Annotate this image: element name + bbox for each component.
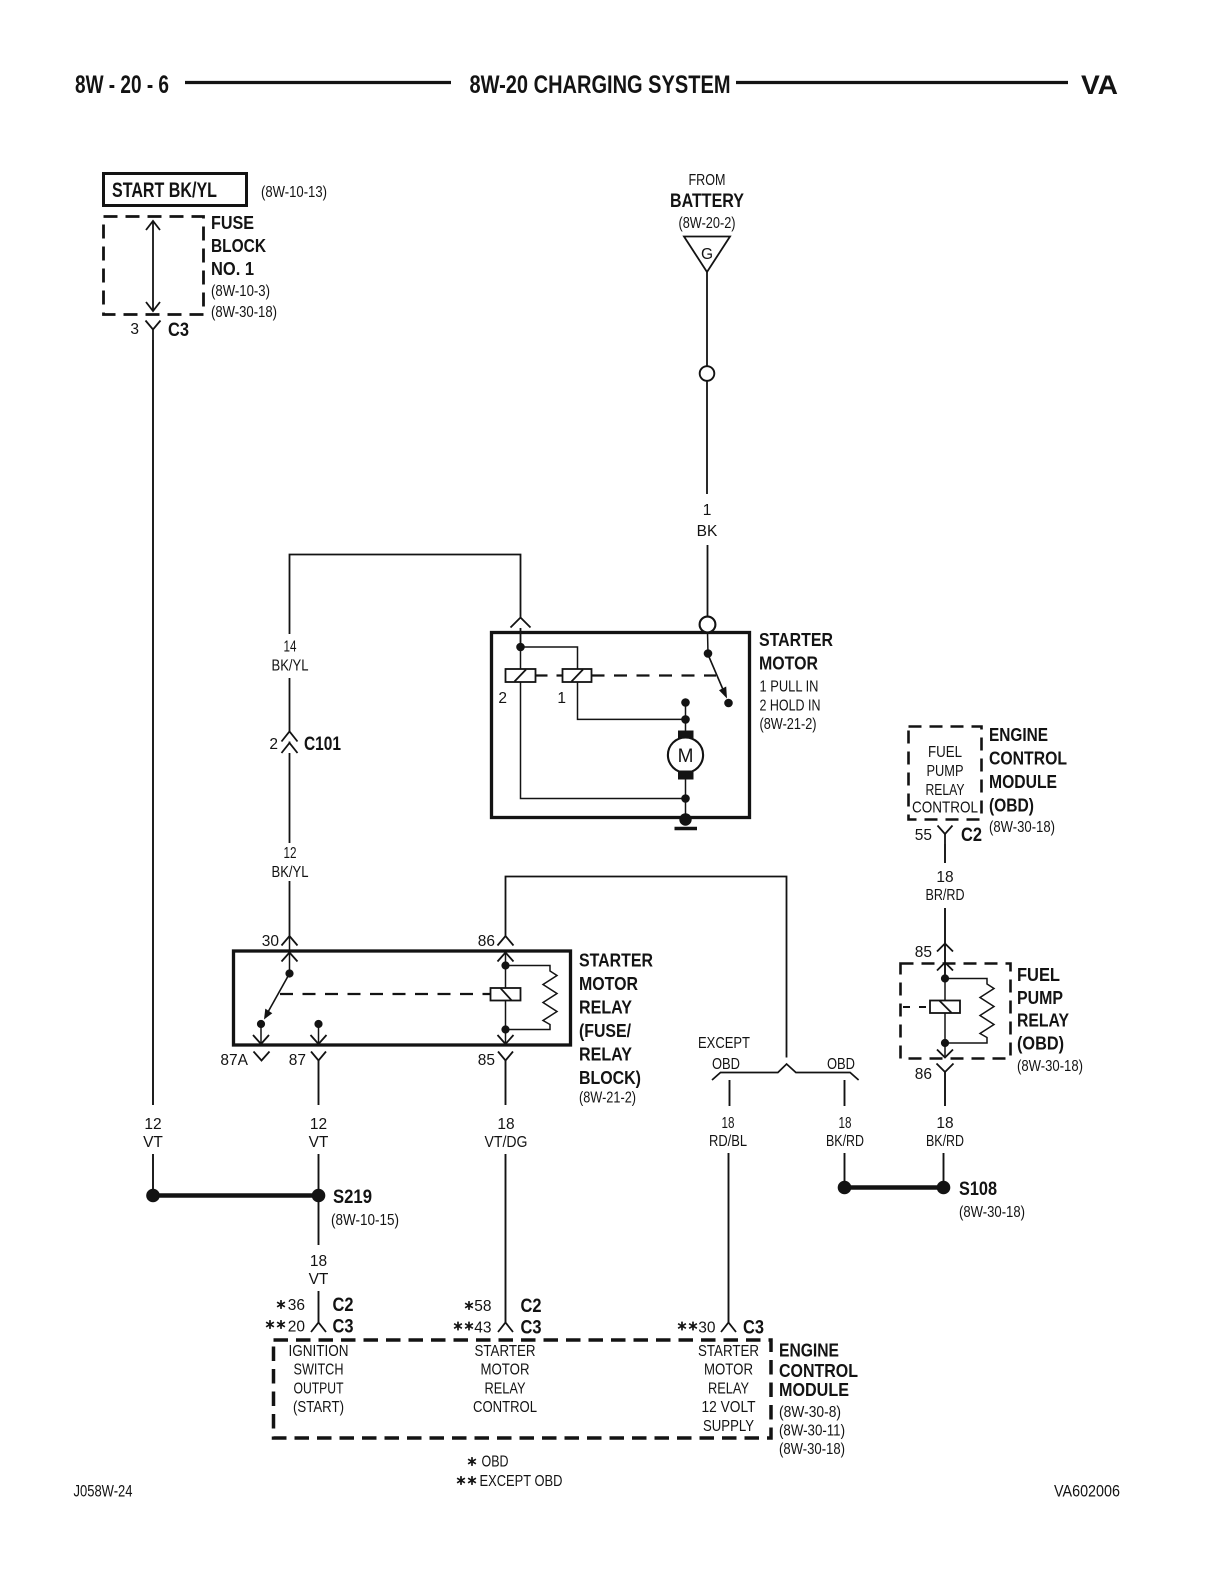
- svg-text:MOTOR: MOTOR: [759, 654, 818, 674]
- connector chevron at starter feed entry: [511, 618, 531, 628]
- svg-text:(8W-30-18): (8W-30-18): [1017, 1058, 1083, 1075]
- wire battery to splice circle: [706, 272, 708, 366]
- svg-text:30: 30: [262, 933, 280, 950]
- engine control module dashed box: [274, 1340, 772, 1438]
- svg-text:(8W-10-13): (8W-10-13): [261, 184, 327, 201]
- svg-text:C101: C101: [304, 734, 341, 755]
- svg-text:12 VOLT: 12 VOLT: [702, 1399, 756, 1416]
- svg-text:VT: VT: [143, 1134, 163, 1151]
- wire obd branch stub: [844, 1080, 846, 1106]
- svg-text:C3: C3: [333, 1317, 354, 1338]
- wire 87A to box edge: [260, 1024, 262, 1044]
- footnote EXCEPT OBD: [457, 1476, 465, 1485]
- svg-text:C3: C3: [168, 320, 189, 341]
- svg-text:OUTPUT: OUTPUT: [294, 1380, 344, 1397]
- svg-text:1: 1: [703, 502, 712, 519]
- pin 30 C3 label col3: [678, 1322, 686, 1331]
- ECM fuel pump relay control dashed box: [909, 727, 982, 820]
- connector chevron outside pin 86: [498, 936, 514, 946]
- svg-text:30: 30: [698, 1320, 716, 1337]
- svg-text:IGNITION: IGNITION: [289, 1343, 349, 1360]
- svg-text:BLOCK): BLOCK): [579, 1068, 641, 1088]
- node G feed triangle: [684, 237, 730, 273]
- svg-text:FROM: FROM: [689, 172, 726, 189]
- wire except-obd branch stub: [729, 1080, 731, 1106]
- wire except-obd branch down: [728, 1153, 730, 1322]
- svg-text:58: 58: [474, 1298, 491, 1315]
- svg-text:2: 2: [498, 690, 507, 707]
- wire to ECM pin 36/20: [318, 1291, 320, 1322]
- wire motor to ground: [685, 780, 687, 821]
- svg-text:18: 18: [839, 1115, 852, 1132]
- ground bar: [675, 827, 698, 831]
- header rule left: [185, 81, 451, 84]
- svg-text:(8W-30-18): (8W-30-18): [989, 819, 1055, 836]
- connector fork at ECM col1: [311, 1323, 326, 1333]
- svg-text:(OBD): (OBD): [989, 796, 1034, 816]
- svg-text:ENGINE: ENGINE: [989, 725, 1048, 745]
- svg-text:EXCEPT OBD: EXCEPT OBD: [480, 1473, 563, 1490]
- svg-text:(START): (START): [293, 1399, 344, 1416]
- svg-text:RELAY: RELAY: [926, 782, 965, 799]
- svg-text:BATTERY: BATTERY: [670, 190, 744, 212]
- svg-text:(8W-30-18): (8W-30-18): [959, 1204, 1025, 1221]
- splice circle: [700, 366, 715, 381]
- svg-text:CONTROL: CONTROL: [473, 1399, 537, 1416]
- svg-text:36: 36: [288, 1297, 305, 1314]
- svg-text:86: 86: [915, 1066, 932, 1083]
- connector fork at ECM col2: [498, 1323, 513, 1333]
- svg-text:(8W-21-2): (8W-21-2): [760, 716, 817, 733]
- wire obd branch down to S108: [844, 1153, 846, 1182]
- svg-text:18: 18: [722, 1115, 735, 1132]
- relay contact dot 87A: [257, 1020, 265, 1028]
- connector C101 double chevron: [282, 732, 298, 742]
- svg-text:85: 85: [915, 944, 932, 961]
- svg-text:RELAY: RELAY: [485, 1380, 526, 1397]
- connector chevron outside pin 30: [282, 936, 298, 946]
- wire to S108: [943, 1153, 945, 1182]
- svg-text:VT: VT: [309, 1271, 329, 1288]
- junction dot pin 86: [501, 961, 509, 969]
- svg-text:85: 85: [478, 1052, 495, 1069]
- svg-text:BR/RD: BR/RD: [926, 887, 965, 904]
- svg-text:2 HOLD IN: 2 HOLD IN: [760, 698, 821, 715]
- svg-text:STARTER: STARTER: [698, 1343, 759, 1360]
- footnote OBD: [468, 1457, 476, 1466]
- svg-text:MOTOR: MOTOR: [579, 974, 638, 994]
- svg-text:(8W-20-2): (8W-20-2): [679, 215, 736, 232]
- svg-text:12: 12: [284, 845, 297, 862]
- coil 1 (pull in): [563, 669, 592, 682]
- svg-text:18: 18: [936, 1115, 953, 1132]
- wire to fuel pump relay pin 85: [944, 908, 946, 978]
- svg-text:(8W-30-18): (8W-30-18): [211, 304, 277, 321]
- svg-text:43: 43: [474, 1320, 491, 1337]
- pin 36 C2 label col1: [277, 1300, 285, 1309]
- svg-text:VA: VA: [1081, 70, 1118, 100]
- junction dot motor bottom: [681, 794, 690, 803]
- arrow chevron inside 87A: [253, 1035, 269, 1044]
- arrow chevron inside pin 30: [282, 953, 298, 962]
- wire double-headed arrow inside fuse block: [152, 222, 154, 310]
- wire dot to coil 1: [521, 647, 578, 669]
- starter terminal circle: [700, 617, 716, 633]
- junction dot fp bottom: [941, 1039, 949, 1047]
- wire 87 to box edge: [318, 1024, 320, 1044]
- svg-text:CONTROL: CONTROL: [779, 1361, 858, 1381]
- junction dot motor lead: [681, 715, 690, 724]
- svg-text:M: M: [678, 746, 694, 767]
- arrow chevron inside 87: [311, 1035, 327, 1044]
- svg-text:18: 18: [310, 1253, 327, 1270]
- connector fork at ECM col3: [721, 1323, 736, 1333]
- junction dot pin 30: [285, 969, 293, 977]
- svg-text:18: 18: [936, 869, 953, 886]
- svg-text:BK/YL: BK/YL: [272, 864, 309, 881]
- pin 43 C3 label col2: [454, 1322, 462, 1331]
- svg-text:EXCEPT: EXCEPT: [698, 1035, 750, 1052]
- coil actuator dashed stub: [903, 1006, 930, 1008]
- wire into relay box: [289, 936, 291, 973]
- wire label to starter terminal: [707, 545, 709, 617]
- svg-text:BK/YL: BK/YL: [272, 658, 309, 675]
- svg-text:BK/RD: BK/RD: [926, 1133, 964, 1150]
- motor M: [678, 731, 694, 740]
- svg-text:OBD: OBD: [712, 1056, 740, 1073]
- svg-text:BLOCK: BLOCK: [211, 236, 266, 256]
- svg-text:STARTER: STARTER: [579, 951, 653, 971]
- svg-text:S219: S219: [333, 1186, 372, 1208]
- fp suppression resistor: [945, 979, 994, 1044]
- svg-text:(8W-30-8): (8W-30-8): [779, 1404, 841, 1421]
- svg-text:RD/BL: RD/BL: [709, 1133, 747, 1150]
- connector C3 (fuse block): [146, 321, 161, 330]
- pin 58 C2 label col2: [465, 1301, 473, 1310]
- svg-text:RELAY: RELAY: [708, 1380, 749, 1397]
- svg-text:(FUSE/: (FUSE/: [579, 1021, 631, 1041]
- connector Y outside 87: [311, 1052, 326, 1061]
- svg-text:START BK/YL: START BK/YL: [112, 179, 217, 202]
- svg-text:OBD: OBD: [827, 1056, 855, 1073]
- switch contact dot: [724, 699, 733, 708]
- svg-text:MOTOR: MOTOR: [704, 1362, 753, 1379]
- ground dot on box edge: [679, 813, 691, 825]
- svg-text:RELAY: RELAY: [579, 998, 632, 1018]
- wire pin86 feed horizontal: [506, 877, 787, 1058]
- connector chevron outside fp 85: [937, 944, 953, 952]
- arrow chevron inside pin 85: [498, 1035, 514, 1044]
- svg-text:J058W-24: J058W-24: [74, 1482, 133, 1501]
- svg-text:SWITCH: SWITCH: [294, 1362, 344, 1379]
- wire dots to motor: [685, 703, 687, 732]
- svg-text:(8W-10-3): (8W-10-3): [211, 283, 270, 300]
- connector chevron outside 87A: [254, 1052, 270, 1061]
- header rule right: [736, 81, 1068, 84]
- svg-text:BK/RD: BK/RD: [826, 1133, 864, 1150]
- svg-text:CONTROL: CONTROL: [989, 749, 1067, 769]
- svg-text:87: 87: [289, 1052, 306, 1069]
- arrow chevron inside fp 85: [937, 963, 953, 971]
- svg-text:VT/DG: VT/DG: [485, 1134, 528, 1151]
- connector Y outside pin 85: [498, 1052, 513, 1061]
- svg-text:FUEL: FUEL: [928, 744, 962, 761]
- wire circle down to label: [706, 381, 708, 494]
- svg-text:2: 2: [269, 736, 278, 753]
- splice S219 bus: [153, 1193, 319, 1198]
- svg-text:C2: C2: [961, 825, 982, 846]
- wire through coil 2 down and across to motor bottom: [520, 647, 522, 669]
- wire left column resume: [152, 1154, 154, 1189]
- svg-text:12: 12: [310, 1116, 327, 1133]
- svg-text:RELAY: RELAY: [1017, 1011, 1069, 1031]
- svg-text:S108: S108: [959, 1178, 997, 1200]
- brace split: [712, 1064, 859, 1080]
- relay coil: [491, 988, 521, 1001]
- fuse block No.1 dashed box: [104, 217, 204, 315]
- pin 20 C3 label col1: [266, 1320, 274, 1329]
- junction dot feed: [516, 643, 525, 652]
- svg-text:(8W-30-11): (8W-30-11): [779, 1423, 845, 1440]
- connector Y outside fp 86: [937, 1064, 954, 1073]
- wire coil1 down and across: [578, 682, 686, 719]
- fuel pump relay coil: [930, 1001, 960, 1014]
- svg-text:G: G: [701, 246, 713, 263]
- svg-text:NO. 1: NO. 1: [211, 259, 254, 279]
- switch blade with arrowhead: [708, 655, 723, 690]
- svg-text:FUSE: FUSE: [211, 213, 254, 233]
- svg-text:18: 18: [497, 1116, 514, 1133]
- wire left column x153 down: [152, 340, 154, 1105]
- svg-text:STARTER: STARTER: [759, 630, 833, 650]
- svg-text:RELAY: RELAY: [579, 1045, 632, 1065]
- svg-text:C3: C3: [743, 1318, 764, 1339]
- svg-text:STARTER: STARTER: [475, 1343, 536, 1360]
- relay contact dot 87: [314, 1020, 322, 1028]
- starter motor relay box: [234, 951, 571, 1045]
- svg-text:MOTOR: MOTOR: [481, 1362, 530, 1379]
- svg-text:OBD: OBD: [482, 1454, 509, 1471]
- relay switch blade with arrowhead: [268, 974, 290, 1013]
- svg-text:VT: VT: [309, 1134, 329, 1151]
- relay coil dashed actuator line: [280, 993, 490, 995]
- svg-text:(OBD): (OBD): [1017, 1034, 1064, 1054]
- svg-text:C2: C2: [521, 1296, 542, 1317]
- svg-text:(8W-30-18): (8W-30-18): [779, 1441, 845, 1458]
- svg-text:BK: BK: [697, 523, 718, 540]
- svg-text:VA602006: VA602006: [1054, 1482, 1120, 1501]
- svg-text:PUMP: PUMP: [927, 763, 964, 780]
- coil 2 (hold in): [506, 669, 536, 682]
- node START BK/YL box: [104, 174, 247, 206]
- wire terminal to pivot: [707, 632, 710, 654]
- svg-text:SUPPLY: SUPPLY: [703, 1418, 754, 1435]
- svg-text:ENGINE: ENGINE: [779, 1341, 839, 1361]
- wire entry into box: [520, 628, 522, 647]
- arrow chevron inside fp 86: [937, 1050, 953, 1058]
- svg-text:CONTROL: CONTROL: [912, 800, 978, 817]
- wire to relay pin 30: [289, 881, 291, 936]
- svg-text:MODULE: MODULE: [779, 1380, 849, 1400]
- svg-text:FUEL: FUEL: [1017, 965, 1060, 985]
- wire C2 down: [944, 844, 946, 863]
- arrow chevron inside pin 86: [498, 953, 514, 962]
- relay suppression resistor: [506, 966, 558, 1030]
- svg-text:55: 55: [915, 827, 932, 844]
- svg-text:8W - 20 - 6: 8W - 20 - 6: [75, 71, 169, 99]
- svg-text:14: 14: [284, 639, 297, 656]
- splice S108 bus: [845, 1185, 944, 1190]
- wire horizontal run to starter feed: [290, 555, 521, 635]
- junction dot fp top: [941, 974, 949, 982]
- junction dot above motor: [681, 698, 690, 707]
- svg-text:(8W-10-15): (8W-10-15): [331, 1212, 399, 1229]
- dashed linkage coil2-coil1-switch: [536, 674, 563, 676]
- wire to C101: [289, 678, 291, 843]
- wire below S219: [318, 1202, 320, 1245]
- wire 85 column resume: [505, 1154, 507, 1322]
- starter motor box: [492, 633, 750, 818]
- svg-text:MODULE: MODULE: [989, 772, 1057, 792]
- svg-text:C3: C3: [521, 1318, 542, 1339]
- svg-text:86: 86: [478, 933, 495, 950]
- wire through coil: [505, 953, 507, 989]
- svg-text:87A: 87A: [220, 1052, 248, 1069]
- svg-text:3: 3: [130, 321, 139, 338]
- svg-text:C2: C2: [333, 1295, 354, 1316]
- svg-text:12: 12: [144, 1116, 161, 1133]
- switch pivot dot: [704, 649, 713, 658]
- fuel pump relay dashed box: [901, 964, 1011, 1059]
- connector C2 Y symbol: [938, 826, 953, 835]
- svg-text:20: 20: [288, 1319, 306, 1336]
- svg-text:(8W-21-2): (8W-21-2): [579, 1090, 636, 1107]
- svg-text:1: 1: [557, 690, 566, 707]
- junction dot pin 85: [501, 1025, 509, 1033]
- svg-text:PUMP: PUMP: [1017, 988, 1063, 1008]
- wire through fp coil: [944, 979, 946, 1001]
- wire 87 column resume: [318, 1154, 320, 1190]
- svg-text:1 PULL IN: 1 PULL IN: [760, 679, 819, 696]
- svg-text:8W-20 CHARGING SYSTEM: 8W-20 CHARGING SYSTEM: [470, 71, 731, 99]
